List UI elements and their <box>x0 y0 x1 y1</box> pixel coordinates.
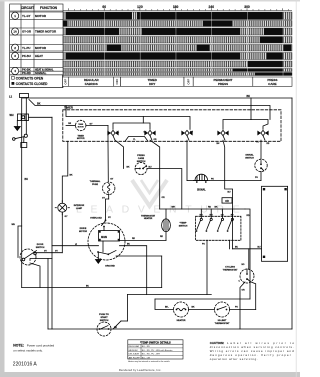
rendered by footer <box>119 368 162 372</box>
svg-text:60: 60 <box>102 5 106 9</box>
svg-text:240: 240 <box>209 5 215 9</box>
svg-text:CAUTION:: CAUTION: <box>210 341 225 345</box>
svg-text:OR: OR <box>162 197 166 199</box>
control box outline <box>262 186 288 261</box>
svg-text:PK-RD: PK-RD <box>22 71 31 75</box>
svg-text:FUNCTION: FUNCTION <box>40 6 58 10</box>
svg-text:YL: YL <box>133 139 136 141</box>
wire buzzer left <box>187 180 194 182</box>
wire neutral vertical <box>25 98 27 134</box>
svg-text:GY-OR: GY-OR <box>22 30 31 34</box>
label box OR <box>222 198 232 203</box>
label BK top bus <box>247 95 251 98</box>
svg-text:NO: NO <box>242 264 245 266</box>
wire GY to thermal fuse <box>107 141 109 182</box>
labels RD BK temp feed <box>208 207 218 209</box>
labels BK heater <box>165 306 195 308</box>
svg-text:300: 300 <box>244 5 250 9</box>
svg-text:GY: GY <box>65 216 69 218</box>
wire lamp feed BK <box>62 141 68 203</box>
cycling thermostat label <box>223 267 239 272</box>
svg-text:PU: PU <box>202 244 205 246</box>
svg-text:PU: PU <box>190 131 193 133</box>
svg-text:MOTOR: MOTOR <box>78 126 85 128</box>
hi-limit thermostat TH2 <box>215 302 230 317</box>
watermark logo V <box>132 180 167 206</box>
label BK press care <box>127 167 131 169</box>
timer contact 3 <box>182 130 192 140</box>
svg-text:FUSE: FUSE <box>92 184 98 186</box>
wire diagonal start <box>113 321 128 329</box>
control box terminals <box>263 188 287 258</box>
svg-text:HEATER: HEATER <box>144 217 153 220</box>
svg-text:BU - OR: BU - OR <box>142 357 151 359</box>
interior lamp label <box>74 205 85 210</box>
overload label <box>90 216 102 219</box>
svg-text:RD: RD <box>160 236 164 238</box>
wire door to bottom bus <box>30 263 40 288</box>
ground label <box>105 266 115 268</box>
svg-text:THERMOSTAT: THERMOSTAT <box>215 322 231 325</box>
svg-text:OVERLOAD: OVERLOAD <box>90 216 102 219</box>
svg-text:GY: GY <box>108 217 112 219</box>
svg-text:YL-PU: YL-PU <box>22 46 30 50</box>
svg-text:OFF: OFF <box>187 79 191 85</box>
svg-text:OR: OR <box>242 289 246 291</box>
scan page edge right <box>295 0 298 377</box>
wire temp out BU <box>229 240 231 249</box>
wire right border <box>291 98 293 329</box>
wire temp out PU <box>206 240 208 294</box>
svg-text:GY: GY <box>102 198 106 200</box>
heater label <box>177 319 186 322</box>
label OR cycling out <box>242 289 246 291</box>
caution text <box>210 341 295 361</box>
label RD push start <box>114 327 118 329</box>
svg-text:HEATER: HEATER <box>177 319 186 322</box>
svg-text:SWITCH: SWITCH <box>100 320 109 322</box>
svg-text:GY: GY <box>110 179 114 181</box>
wire contact4 chain <box>223 140 233 249</box>
wire left bus <box>21 98 23 288</box>
svg-text:operation after servicing.: operation after servicing. <box>210 357 258 361</box>
svg-text:CONTACTS OPEN: CONTACTS OPEN <box>16 76 44 80</box>
svg-text:TIMER: TIMER <box>64 106 74 110</box>
svg-text:Wiring errors can cause improp: Wiring errors can cause improper and <box>210 349 294 353</box>
ground arrow motor <box>96 252 102 263</box>
circuit1A aux bar <box>63 37 292 44</box>
label WH door <box>12 224 16 226</box>
wire fuse to overload <box>106 195 109 220</box>
svg-text:SIGNAL: SIGNAL <box>35 71 46 75</box>
document number <box>13 361 38 367</box>
wire to cycling stat <box>233 249 262 269</box>
circuit3 aux bar <box>63 61 292 67</box>
svg-text:TIMER: TIMER <box>78 124 84 126</box>
cycle strip <box>63 77 293 86</box>
wire temp right RD <box>245 209 250 299</box>
svg-text:disconnection when servicing c: disconnection when servicing controls. <box>210 345 294 349</box>
scan page edge top <box>0 0 300 2</box>
wire heater bus <box>155 299 250 310</box>
svg-text:BU: BU <box>25 178 29 181</box>
svg-text:DOOR: DOOR <box>37 244 44 246</box>
motor wire bottom <box>116 256 162 288</box>
svg-text:CARE: CARE <box>138 157 145 160</box>
label BU left bus <box>25 178 29 181</box>
svg-text:SIGNAL: SIGNAL <box>245 154 254 157</box>
thermal fuse F1 <box>103 182 115 194</box>
svg-text:BK-: BK- <box>165 307 169 309</box>
svg-text:START: START <box>100 316 108 319</box>
temp contact labels <box>200 214 235 216</box>
timer label <box>64 106 74 110</box>
label WH power block <box>10 114 14 117</box>
timer motor label <box>77 135 85 140</box>
cycling thermostat TH1 <box>240 269 254 283</box>
circuit table rows <box>10 12 63 75</box>
wire contact5 to signal switch <box>260 140 262 159</box>
svg-text:WH: WH <box>10 114 14 117</box>
svg-text:BU: BU <box>228 192 232 194</box>
wire door to lamp GY <box>36 251 62 253</box>
hi-limit label <box>215 320 231 325</box>
wire feed contacts 4-5 <box>223 120 268 130</box>
wire bias heater top <box>165 209 167 219</box>
svg-text:L1: L1 <box>9 95 13 99</box>
motor wire right RD <box>120 238 167 240</box>
label PK buzzer <box>211 178 214 180</box>
svg-text:OFF: OFF <box>115 79 119 85</box>
svg-text:WH: WH <box>12 224 16 226</box>
svg-text:PRESS: PRESS <box>137 155 145 157</box>
svg-text:BK: BK <box>37 102 41 105</box>
wire bottom-left bus <box>22 286 162 288</box>
svg-text:RD: RD <box>208 207 212 209</box>
labels BU cycling feed <box>235 247 261 249</box>
svg-text:MOTOR: MOTOR <box>79 231 88 233</box>
wire second bus BK <box>29 100 270 120</box>
drive motor enclosure <box>88 223 125 260</box>
power cord connector block <box>18 114 29 121</box>
label BK second bus <box>37 102 41 105</box>
wire cycling out OR <box>240 282 245 329</box>
timer motor M1 <box>76 120 86 130</box>
node L1 label <box>9 95 13 99</box>
svg-text:2201016 A: 2201016 A <box>13 361 38 367</box>
svg-text:MEDIUM: MEDIUM <box>129 350 138 352</box>
temp switch details table <box>128 340 183 363</box>
svg-text:FABRICS: FABRICS <box>85 82 98 86</box>
svg-text:OFF: OFF <box>64 79 68 85</box>
push to start label <box>99 314 109 322</box>
svg-text:BU - RD: BU - RD <box>142 346 151 348</box>
svg-text:TIMER MOTOR: TIMER MOTOR <box>35 30 57 34</box>
overload switch <box>102 219 107 230</box>
door switch S3 <box>20 249 37 265</box>
circuit1A timer motor bar <box>63 28 292 35</box>
svg-text:PRESS: PRESS <box>218 82 228 86</box>
svg-text:180: 180 <box>173 5 179 9</box>
svg-text:BU: BU <box>127 244 131 246</box>
wire timer motor left OR <box>66 123 76 126</box>
svg-text:OR: OR <box>225 201 229 203</box>
svg-text:DRIVE: DRIVE <box>80 228 87 230</box>
time axis numbers <box>102 5 250 9</box>
scan page edge bottom <box>0 372 300 377</box>
wire timer motor right GY <box>86 123 108 141</box>
svg-text:YL-GY: YL-GY <box>22 14 31 18</box>
wire lamp to door switch <box>61 212 63 253</box>
label GY lamp bottom <box>65 216 69 218</box>
wire power block to start column <box>29 117 53 329</box>
svg-text:CONTACTS CLOSED: CONTACTS CLOSED <box>16 82 48 86</box>
terminal block power entry <box>20 94 29 98</box>
svg-text:MOTOR: MOTOR <box>35 46 47 50</box>
svg-text:RD: RD <box>132 238 136 240</box>
motor main winding <box>99 231 120 242</box>
svg-text:RD: RD <box>247 215 251 217</box>
svg-text:DRY: DRY <box>149 82 155 86</box>
svg-text:PK: PK <box>211 178 214 180</box>
svg-text:SWITCH: SWITCH <box>245 158 254 160</box>
svg-text:BK: BK <box>70 174 74 176</box>
wire contact labels <box>117 131 270 145</box>
svg-text:SWITCH: SWITCH <box>137 161 146 163</box>
temp switch contacts <box>196 209 234 232</box>
label C cycling <box>239 281 241 283</box>
svg-text:CARE: CARE <box>268 82 276 86</box>
timer contact 1 <box>108 130 118 140</box>
svg-text:BU: BU <box>258 247 262 249</box>
temp switch dashed box <box>196 216 241 240</box>
svg-text:THERMAL: THERMAL <box>90 180 101 183</box>
svg-text:PUSH TO: PUSH TO <box>99 314 109 316</box>
buzzer label <box>197 188 206 191</box>
circuit4 heat-signal bar <box>63 69 292 72</box>
signal switch label <box>245 154 254 160</box>
motor wire left VI <box>52 244 99 246</box>
motor centrifugal switch <box>97 241 116 255</box>
press care cam profile <box>125 137 148 142</box>
wire timer feed <box>66 106 190 130</box>
svg-text:CYCLING: CYCLING <box>225 267 235 269</box>
thermal fuse label <box>90 180 101 186</box>
wire cycling out PU <box>250 282 256 310</box>
svg-text:TIMER: TIMER <box>77 135 84 137</box>
svg-text:WH: WH <box>172 207 176 209</box>
buzzer SIGNAL <box>194 174 209 183</box>
label NO cycling <box>242 264 245 266</box>
svg-text:dangerous operation. Verify p: dangerous operation. Verify proper <box>210 353 291 357</box>
wire contact2 down <box>150 140 160 209</box>
svg-text:BU - RD, PU - WH: BU - RD, PU - WH <box>142 354 160 356</box>
circuit1 motor bar <box>63 12 292 20</box>
svg-text:INTERIOR: INTERIOR <box>74 205 85 207</box>
svg-text:NOTE:: NOTE: <box>13 344 24 348</box>
timer contact 4 <box>218 130 228 140</box>
wire top bus BK <box>22 98 292 120</box>
thermostat bias heater R1 <box>162 219 171 232</box>
wire bottom bus <box>48 328 292 330</box>
svg-text:1A: 1A <box>13 30 17 34</box>
svg-text:HEAT: HEAT <box>35 54 43 58</box>
thermostat heater label <box>141 215 156 221</box>
timer contact 5 <box>258 130 268 140</box>
circled circuit numbers <box>12 12 19 74</box>
note text <box>13 343 54 352</box>
label GY fuse bottom <box>102 198 106 200</box>
wire bias heater bottom RD <box>160 232 166 241</box>
svg-text:SWITCH: SWITCH <box>36 247 45 249</box>
svg-text:SIGNAL: SIGNAL <box>197 188 206 191</box>
svg-text:MAIN: MAIN <box>101 236 107 239</box>
svg-text:HI-LIMIT: HI-LIMIT <box>218 320 227 322</box>
svg-text:BK: BK <box>215 207 219 209</box>
svg-text:GROUND: GROUND <box>105 266 115 268</box>
legend contacts open/closed <box>10 75 63 88</box>
wire press care to temp feed <box>147 169 182 210</box>
door switch label <box>36 244 45 249</box>
svg-text:RD: RD <box>267 143 270 145</box>
svg-text:YL: YL <box>117 131 120 133</box>
svg-text:Heater may be internal or exte: Heater may be internal or external to th… <box>128 360 171 363</box>
label PU signal switch <box>255 177 258 179</box>
circuit2 motor bar <box>63 45 292 52</box>
wire door switch feed <box>18 226 22 258</box>
drive motor label <box>79 228 88 233</box>
wire door blade out <box>30 259 52 261</box>
wire contact1 to press care switch <box>115 140 124 168</box>
gridline gaps <box>104 12 283 76</box>
signal switch S2 <box>255 159 267 171</box>
interior lamp LP1 <box>55 201 69 215</box>
svg-text:OR: OR <box>68 123 72 125</box>
wire heater feed <box>128 295 212 322</box>
svg-text:PK: PK <box>256 142 259 144</box>
circuit1 aux bar <box>63 21 292 27</box>
scan page edge left <box>0 0 5 377</box>
svg-text:PU: PU <box>235 307 238 309</box>
power plug terminals <box>13 134 28 147</box>
svg-text:BU: BU <box>235 247 239 249</box>
temp switch label <box>179 223 188 228</box>
wire hilimit right PU <box>230 307 256 310</box>
ground chassis arrow <box>14 121 20 131</box>
chart table outline <box>10 4 63 88</box>
time axis <box>63 8 292 10</box>
label BU press care out <box>149 167 153 169</box>
svg-text:Rendered by LeadVenture, Inc.: Rendered by LeadVenture, Inc. <box>119 368 162 372</box>
wire heater to hilimit <box>189 309 215 311</box>
svg-text:PK-BU: PK-BU <box>22 54 31 58</box>
svg-text:MOTOR: MOTOR <box>77 138 85 140</box>
svg-text:C: C <box>239 281 241 283</box>
svg-text:MOTOR: MOTOR <box>35 14 47 18</box>
svg-text:BU: BU <box>217 143 220 145</box>
press care switch label <box>137 155 146 163</box>
timer contact 2 <box>145 130 155 140</box>
svg-text:SWITCH: SWITCH <box>179 226 188 228</box>
label BK lamp <box>70 174 74 176</box>
label BU contact4 <box>228 192 232 194</box>
circuit3 heat bar <box>63 53 292 60</box>
svg-text:BK: BK <box>192 306 196 308</box>
wire contact3 to buzzer <box>186 140 188 180</box>
label PU temp out <box>202 244 205 246</box>
label OR wire <box>162 197 166 199</box>
motor wire right BU <box>120 244 147 295</box>
press care switch S1 <box>135 163 147 175</box>
label RD right <box>247 215 251 217</box>
svg-text:Label all wires prior to: Label all wires prior to <box>227 341 294 345</box>
label WH temp feed <box>172 207 176 209</box>
wire temp feed bus <box>160 208 245 210</box>
svg-text:BK: BK <box>127 167 131 169</box>
svg-text:CIRCUIT: CIRCUIT <box>21 6 34 10</box>
svg-text:BU: BU <box>86 286 90 288</box>
timer dashed enclosure <box>63 110 281 142</box>
circuit4 signal bar <box>63 73 292 76</box>
svg-text:on select models only.: on select models only. <box>13 349 42 353</box>
wire start column lower <box>47 259 49 330</box>
svg-text:THERMOSTAT: THERMOSTAT <box>223 269 239 272</box>
chart header labels <box>21 6 58 10</box>
wire branch contacts 1-2 <box>113 117 150 130</box>
heater E1 <box>174 302 189 317</box>
svg-text:PU: PU <box>255 177 258 179</box>
push to start switch S4 <box>97 322 111 336</box>
label GY overload <box>108 217 112 219</box>
svg-text:BK: BK <box>247 95 251 98</box>
wire buzzer to signal switch <box>209 172 261 181</box>
svg-text:OR: OR <box>154 139 158 141</box>
label GY fuse top <box>110 179 114 181</box>
svg-text:Power cord provided: Power cord provided <box>27 343 55 347</box>
svg-text:120: 120 <box>137 5 143 9</box>
svg-text:*TEMP: *TEMP <box>180 223 187 225</box>
svg-text:BU: BU <box>149 167 153 169</box>
